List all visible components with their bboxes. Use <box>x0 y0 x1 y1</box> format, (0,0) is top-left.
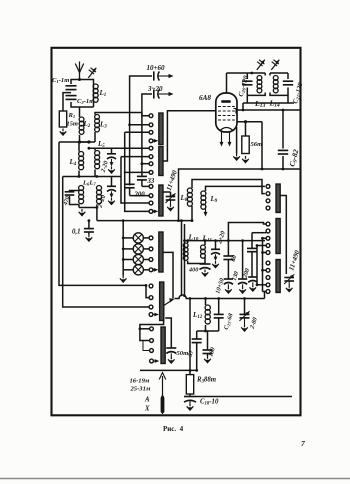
contact I2 <box>266 268 270 272</box>
wire C2 midpoint to R1 <box>63 93 71 111</box>
label L1 <box>99 89 107 98</box>
ground under padder A <box>225 284 232 293</box>
contact G2 <box>266 192 270 196</box>
label L9 <box>210 195 218 204</box>
capacitor 400 <box>200 264 211 269</box>
wire L8 bottom <box>191 206 193 221</box>
switch wafer D <box>159 232 163 272</box>
wire lamp4 leads <box>123 269 149 271</box>
ground under L6 <box>79 209 86 216</box>
wire lamp3 leads <box>122 258 149 261</box>
capacitor 60 <box>223 239 233 259</box>
inductor L3 <box>95 115 100 132</box>
wire row y148 with L5 trimmer taps <box>89 147 151 149</box>
lamp 3 <box>133 254 143 264</box>
junction rail C15 <box>217 297 220 300</box>
label 200 padder <box>241 268 251 280</box>
inductor L12 <box>205 299 210 325</box>
tube heater lead 2 <box>228 132 232 147</box>
wire lamp2 leads <box>122 248 149 251</box>
wire bus v1 down <box>121 157 149 203</box>
padder trimmer B <box>238 239 247 284</box>
ground under 2-80 <box>241 318 248 331</box>
contact C4 with arrow <box>149 210 158 214</box>
label 2-20 upper <box>99 160 109 174</box>
wire oscillator top rail <box>179 169 301 221</box>
ground under R1 <box>60 129 67 136</box>
IF tank2 frame <box>270 73 288 95</box>
contact A1 <box>149 114 153 118</box>
inductor L5 <box>95 151 100 169</box>
label 130 <box>231 271 241 282</box>
contact F1 <box>150 327 154 331</box>
wire tank1 bottom drop <box>246 95 248 103</box>
ground under trimmer osc <box>212 261 219 268</box>
contact H3 <box>266 236 270 240</box>
svg-text:Рис. 4: Рис. 4 <box>163 425 184 433</box>
variable capacitor gang 1 <box>165 193 175 203</box>
wire row y240 <box>185 240 266 242</box>
lamp 1 <box>133 233 143 243</box>
contact F2 <box>150 339 154 343</box>
trimmer capacitor 10+60 <box>154 71 160 80</box>
inductor L6 <box>79 186 84 204</box>
capacitor 5t <box>192 339 202 370</box>
wire screen to C9 bus <box>261 122 263 169</box>
junction y148 bus <box>88 147 91 150</box>
wire anode rail <box>227 72 248 74</box>
wire feed A2 <box>130 124 150 126</box>
capacitor C9-82 <box>278 150 288 154</box>
wire feed B4 <box>124 171 149 173</box>
tube 6A8 envelope <box>216 93 237 132</box>
wire cap60 down <box>227 260 229 279</box>
junction C9 top <box>282 109 285 112</box>
label C2-1t <box>77 98 94 105</box>
junction screen rail <box>261 168 264 171</box>
tube anode plate <box>221 100 230 103</box>
inductor L13 <box>257 76 262 93</box>
tube anode lead <box>226 73 228 93</box>
contact A2 <box>149 123 153 127</box>
padder trimmer C <box>248 277 257 282</box>
label L5 <box>97 140 105 149</box>
wire bottom rail y370 <box>140 369 197 371</box>
label C9-82 <box>287 148 301 168</box>
label 11+490 left <box>166 169 179 191</box>
tube grid row 4 <box>218 119 235 121</box>
antenna W1 <box>75 62 83 80</box>
wire lamp1 leads <box>122 237 149 240</box>
capacitor 130 top <box>247 233 257 252</box>
contact B1 <box>149 146 153 150</box>
junction rail R3 <box>189 369 192 372</box>
label 25-31m <box>130 386 151 393</box>
label L12 <box>192 311 203 320</box>
input tank loop wire <box>71 80 94 108</box>
contact G4 <box>266 206 270 210</box>
contact F4 with arrow <box>150 359 160 363</box>
wire wafer F feed <box>140 321 164 329</box>
ground under capacitor 0,1 <box>86 235 93 242</box>
label 60 <box>230 254 239 263</box>
switch wafer B <box>159 147 163 176</box>
switch wafer C <box>159 185 163 216</box>
resistor R3 <box>186 375 193 394</box>
wire gang bus 2 <box>184 224 186 296</box>
wire rail up to contact I5 <box>264 292 266 299</box>
wire left vertical 1 <box>59 142 146 285</box>
junction screen node <box>244 120 247 123</box>
label L11 <box>202 234 213 244</box>
contact E2 <box>149 296 153 300</box>
wire wiper C to gang capacitor <box>163 192 171 196</box>
ground under 180 <box>204 356 211 363</box>
adjustable core mark L13 <box>257 60 265 70</box>
junction right bus a1 <box>261 237 266 240</box>
contact G1 <box>266 185 270 189</box>
ground under 50t <box>168 353 175 363</box>
wire main bottom rail <box>175 295 265 299</box>
inductor L11 <box>201 245 206 258</box>
label 180 <box>207 347 217 358</box>
contact D2 <box>149 247 153 251</box>
inductor L2 <box>79 117 84 134</box>
svg-text:400: 400 <box>188 267 198 274</box>
wire tube top-right rail <box>237 109 301 111</box>
wire feed C2 <box>130 195 150 197</box>
wire L12 bottom row <box>206 325 219 331</box>
wire gang bus 1 <box>181 221 183 297</box>
tube grid row 2 <box>218 110 235 112</box>
capacitor 33 <box>137 176 147 186</box>
wire C9 bus <box>282 110 284 169</box>
arrow under trimmer osc <box>214 254 218 261</box>
contact H1 <box>266 222 270 226</box>
contact B4 <box>149 171 153 175</box>
label L2 <box>83 120 91 129</box>
svg-text:50т: 50т <box>177 350 189 357</box>
label 2+20 osc <box>216 230 227 245</box>
IF tank1 frame <box>247 73 265 95</box>
wire feed E2 <box>146 285 149 297</box>
contact I5 <box>266 290 270 294</box>
wire right bus a <box>262 238 264 291</box>
ground under C18 <box>187 401 194 410</box>
wire feed I5 <box>263 291 267 293</box>
label 5t <box>187 349 196 358</box>
wire feed I2 <box>261 269 266 272</box>
label L14 <box>269 99 280 109</box>
wire tank bottom rail <box>243 102 294 104</box>
variable capacitor gang 2 <box>284 274 294 284</box>
capacitor 180 <box>203 331 213 356</box>
contact C3 <box>149 201 153 205</box>
page bottom edge line <box>0 478 350 480</box>
arrow under trimmer 2-20 upper <box>110 159 114 167</box>
wire bus v2 down <box>125 132 149 211</box>
junction rail L12 <box>204 297 207 300</box>
adjustable core mark L14 <box>271 60 279 70</box>
svg-text:А: А <box>144 397 150 404</box>
junction lamp bus top <box>122 219 125 222</box>
wire row y176 <box>63 176 121 178</box>
trimmer capacitor 2+20 osc <box>211 239 220 254</box>
wire capacitor 470 loop <box>70 191 80 205</box>
svg-text:25-31м: 25-31м <box>130 386 151 393</box>
capacitor 0,1 <box>84 221 94 235</box>
label 10+60 <box>147 64 165 72</box>
wire bus B top <box>142 94 152 176</box>
wire right bus b <box>256 246 258 285</box>
label C20-120 <box>238 74 252 97</box>
wire L10 stub <box>186 239 189 243</box>
svg-text:56т: 56т <box>251 141 263 148</box>
label 200 <box>134 192 146 199</box>
svg-text:0,1: 0,1 <box>72 229 81 236</box>
switch wafer F <box>161 327 165 364</box>
trimmer capacitor 2-80 <box>239 299 249 321</box>
wire row y220 <box>97 220 192 222</box>
capacitor C18-10 <box>184 394 196 402</box>
contact D3 <box>149 258 153 262</box>
wire tube right to screen node <box>237 121 262 123</box>
svg-text:16-19м: 16-19м <box>130 378 150 385</box>
capacitor C20-120 <box>242 81 252 85</box>
contact D1 <box>149 236 153 240</box>
svg-text:3~20: 3~20 <box>147 85 163 93</box>
ground under padder B <box>239 284 246 293</box>
wire L4 bottom <box>78 171 80 177</box>
wire feed F1 <box>140 328 150 330</box>
contact A3 <box>149 130 153 134</box>
wire feed B2 <box>121 156 149 158</box>
label 470 <box>63 196 72 207</box>
wire tank bottom to L2 <box>79 107 81 117</box>
label 6A8 <box>199 94 211 102</box>
label L8 <box>180 194 188 203</box>
wire feed B3 <box>142 163 149 165</box>
tube grid row 3 <box>218 115 235 117</box>
SW antenna lead with arrow <box>159 373 166 415</box>
contact H4 <box>266 244 270 248</box>
wire L9 top to contact G1 <box>206 186 265 191</box>
contact I1 <box>266 261 270 265</box>
tube grid row 1 <box>218 106 235 108</box>
junction right bus a2 <box>261 251 266 254</box>
wire tank2 bottom drop <box>287 95 289 103</box>
page number 7 <box>301 439 306 448</box>
capacitor C15-68 <box>214 299 224 332</box>
wire wiper B to tube grid <box>163 111 216 161</box>
tube grid hook <box>234 109 237 114</box>
wire L2 bottom to node <box>79 135 81 142</box>
ground under capacitor 400 <box>202 270 209 277</box>
wire feed A3 <box>125 131 149 133</box>
label L6 L7 <box>82 180 96 187</box>
svg-text:6А8: 6А8 <box>199 94 211 102</box>
wire feed I4 <box>256 283 267 286</box>
contact E1 <box>149 284 153 288</box>
label C1-1t <box>52 77 69 84</box>
ground under gang 2 <box>286 281 293 292</box>
junction bus node <box>87 140 90 143</box>
wiper arrow E <box>164 298 175 305</box>
contact F3 <box>150 349 154 353</box>
label 33 <box>147 178 155 185</box>
switch wafer H <box>276 219 280 254</box>
caption Ris. 4 <box>163 425 184 433</box>
ground under padder C <box>250 282 257 291</box>
capacitor C2 upper section <box>66 86 77 90</box>
svg-text:С1-1т: С1-1т <box>52 77 69 84</box>
label 56t <box>251 141 263 148</box>
wire 5t branch <box>197 330 207 339</box>
contact A4 with arrow <box>149 139 158 143</box>
label A <box>144 397 150 404</box>
junction feed A2 <box>128 123 131 126</box>
label L13 <box>254 99 265 109</box>
switch wafer G <box>276 184 280 213</box>
wire cap mid down <box>251 252 253 277</box>
junction feed E12 <box>145 284 148 287</box>
junction L4L6 row <box>78 175 81 178</box>
label 2+20 lower <box>96 194 107 209</box>
contact D4 with arrow <box>149 268 158 272</box>
contact C1 <box>149 185 153 189</box>
ground under trimmer lower <box>108 198 115 205</box>
lamp 2 <box>133 244 143 254</box>
arrow of trimmer 3-20 <box>159 92 174 96</box>
label 16-19m <box>130 378 150 385</box>
junction anode tank1 <box>250 72 253 75</box>
ground under trimmer 2-20 upper <box>108 167 115 174</box>
wire feed F3 <box>143 341 150 351</box>
tube cathode arc <box>220 128 233 131</box>
wire L10 L11 bottoms join <box>188 257 205 264</box>
capacitor 200 <box>125 184 135 195</box>
wire L8 top rail <box>192 180 265 194</box>
svg-text:10+60: 10+60 <box>147 64 165 72</box>
switch wafer E <box>160 282 164 321</box>
wire node row y142 <box>59 141 95 143</box>
inductor L9 <box>201 191 206 209</box>
contact C2 <box>149 194 153 198</box>
inductor L7 <box>97 186 102 204</box>
junction gang bus2 bottom <box>183 295 186 298</box>
wire L3 top to switch row <box>95 113 149 116</box>
svg-text:X: X <box>144 406 150 413</box>
contact I3 <box>266 276 270 280</box>
wire L6 L7 bottoms join <box>79 204 97 207</box>
wire trimmer 2-20 lower stub <box>111 177 113 187</box>
tube heater lead 1 <box>220 132 224 147</box>
ground under 56t <box>242 156 249 163</box>
junction L7 bottom <box>96 206 99 209</box>
wire R3 bus <box>189 297 192 375</box>
arrow tap under L9 <box>204 207 208 217</box>
wire lamp bus <box>122 221 124 276</box>
ground under lamp bus <box>120 276 127 283</box>
trimmer capacitor 2-20 lower <box>107 186 116 191</box>
wire wiper G <box>280 196 286 275</box>
junction rail 5t <box>195 369 198 372</box>
wire L5 bottom <box>94 170 96 177</box>
label 3-20 <box>147 85 163 93</box>
junction osc rail left <box>177 219 180 222</box>
resistor 56t <box>242 136 249 154</box>
wire output rail <box>196 396 292 398</box>
label 0,1 <box>72 229 81 236</box>
label 400 <box>188 267 198 274</box>
label L4 <box>69 158 77 167</box>
junction gang bus1 top <box>180 219 183 222</box>
wire trimmer C4 stub <box>111 148 113 153</box>
junction C9 bottom <box>282 168 285 171</box>
wire bus to L4 top <box>79 142 89 152</box>
label 10+50 <box>214 277 226 294</box>
junction L8 bottom <box>191 219 194 222</box>
label C15-68 <box>223 313 235 331</box>
trimmer capacitor 2-20 upper <box>107 154 116 159</box>
adjustable mark near antenna <box>88 68 96 78</box>
wire tank rail to tube rail <box>242 103 245 111</box>
label C18-10 <box>200 399 219 407</box>
switch wafer A <box>159 113 163 145</box>
contact E4 with arrow <box>149 313 159 317</box>
label 11+490 right <box>288 249 301 271</box>
wire bus A top <box>130 76 152 186</box>
contact H5 <box>266 251 270 255</box>
wire tube cathode side down <box>236 127 238 154</box>
inductor L1 <box>93 84 98 102</box>
inductor L8 <box>187 188 192 206</box>
capacitor C2 lower section <box>66 96 77 100</box>
label L3 <box>99 121 107 130</box>
contact I4 <box>266 283 270 287</box>
arrow of trimmer 10+60 <box>159 74 174 78</box>
junction feed B3 <box>141 162 144 165</box>
wire L11 stub <box>204 239 207 245</box>
label X <box>144 406 150 413</box>
label R3 88t <box>196 377 216 385</box>
capacitor 470 <box>65 192 75 195</box>
inductor L4 <box>79 152 84 170</box>
label C21-120 <box>292 81 306 104</box>
inductor L14 <box>273 76 278 93</box>
lamp 4 <box>133 265 143 275</box>
wire feed H4 <box>256 244 267 247</box>
SW antenna cable sleeve <box>161 395 165 413</box>
trimmer capacitor 3-20 <box>154 89 160 98</box>
ground under cathode wire <box>233 154 240 161</box>
label L10 <box>188 233 199 243</box>
wire row y232 <box>252 232 265 234</box>
svg-text:15т: 15т <box>67 121 78 128</box>
junction F feed <box>139 327 142 330</box>
wire L3 bottom to node wire <box>94 132 96 142</box>
resistor R1 <box>59 111 66 127</box>
capacitor C21-120 <box>283 81 293 85</box>
label 50t <box>177 350 189 357</box>
junction rail 2-80 <box>243 297 246 300</box>
svg-text:С2-1т: С2-1т <box>77 98 94 105</box>
wire row y222 to contact H1 <box>228 223 266 241</box>
wire feed F2 <box>140 329 150 341</box>
switch wafer I <box>276 260 280 293</box>
wire left vertical 2 <box>63 177 149 308</box>
contact E3 <box>149 305 153 309</box>
